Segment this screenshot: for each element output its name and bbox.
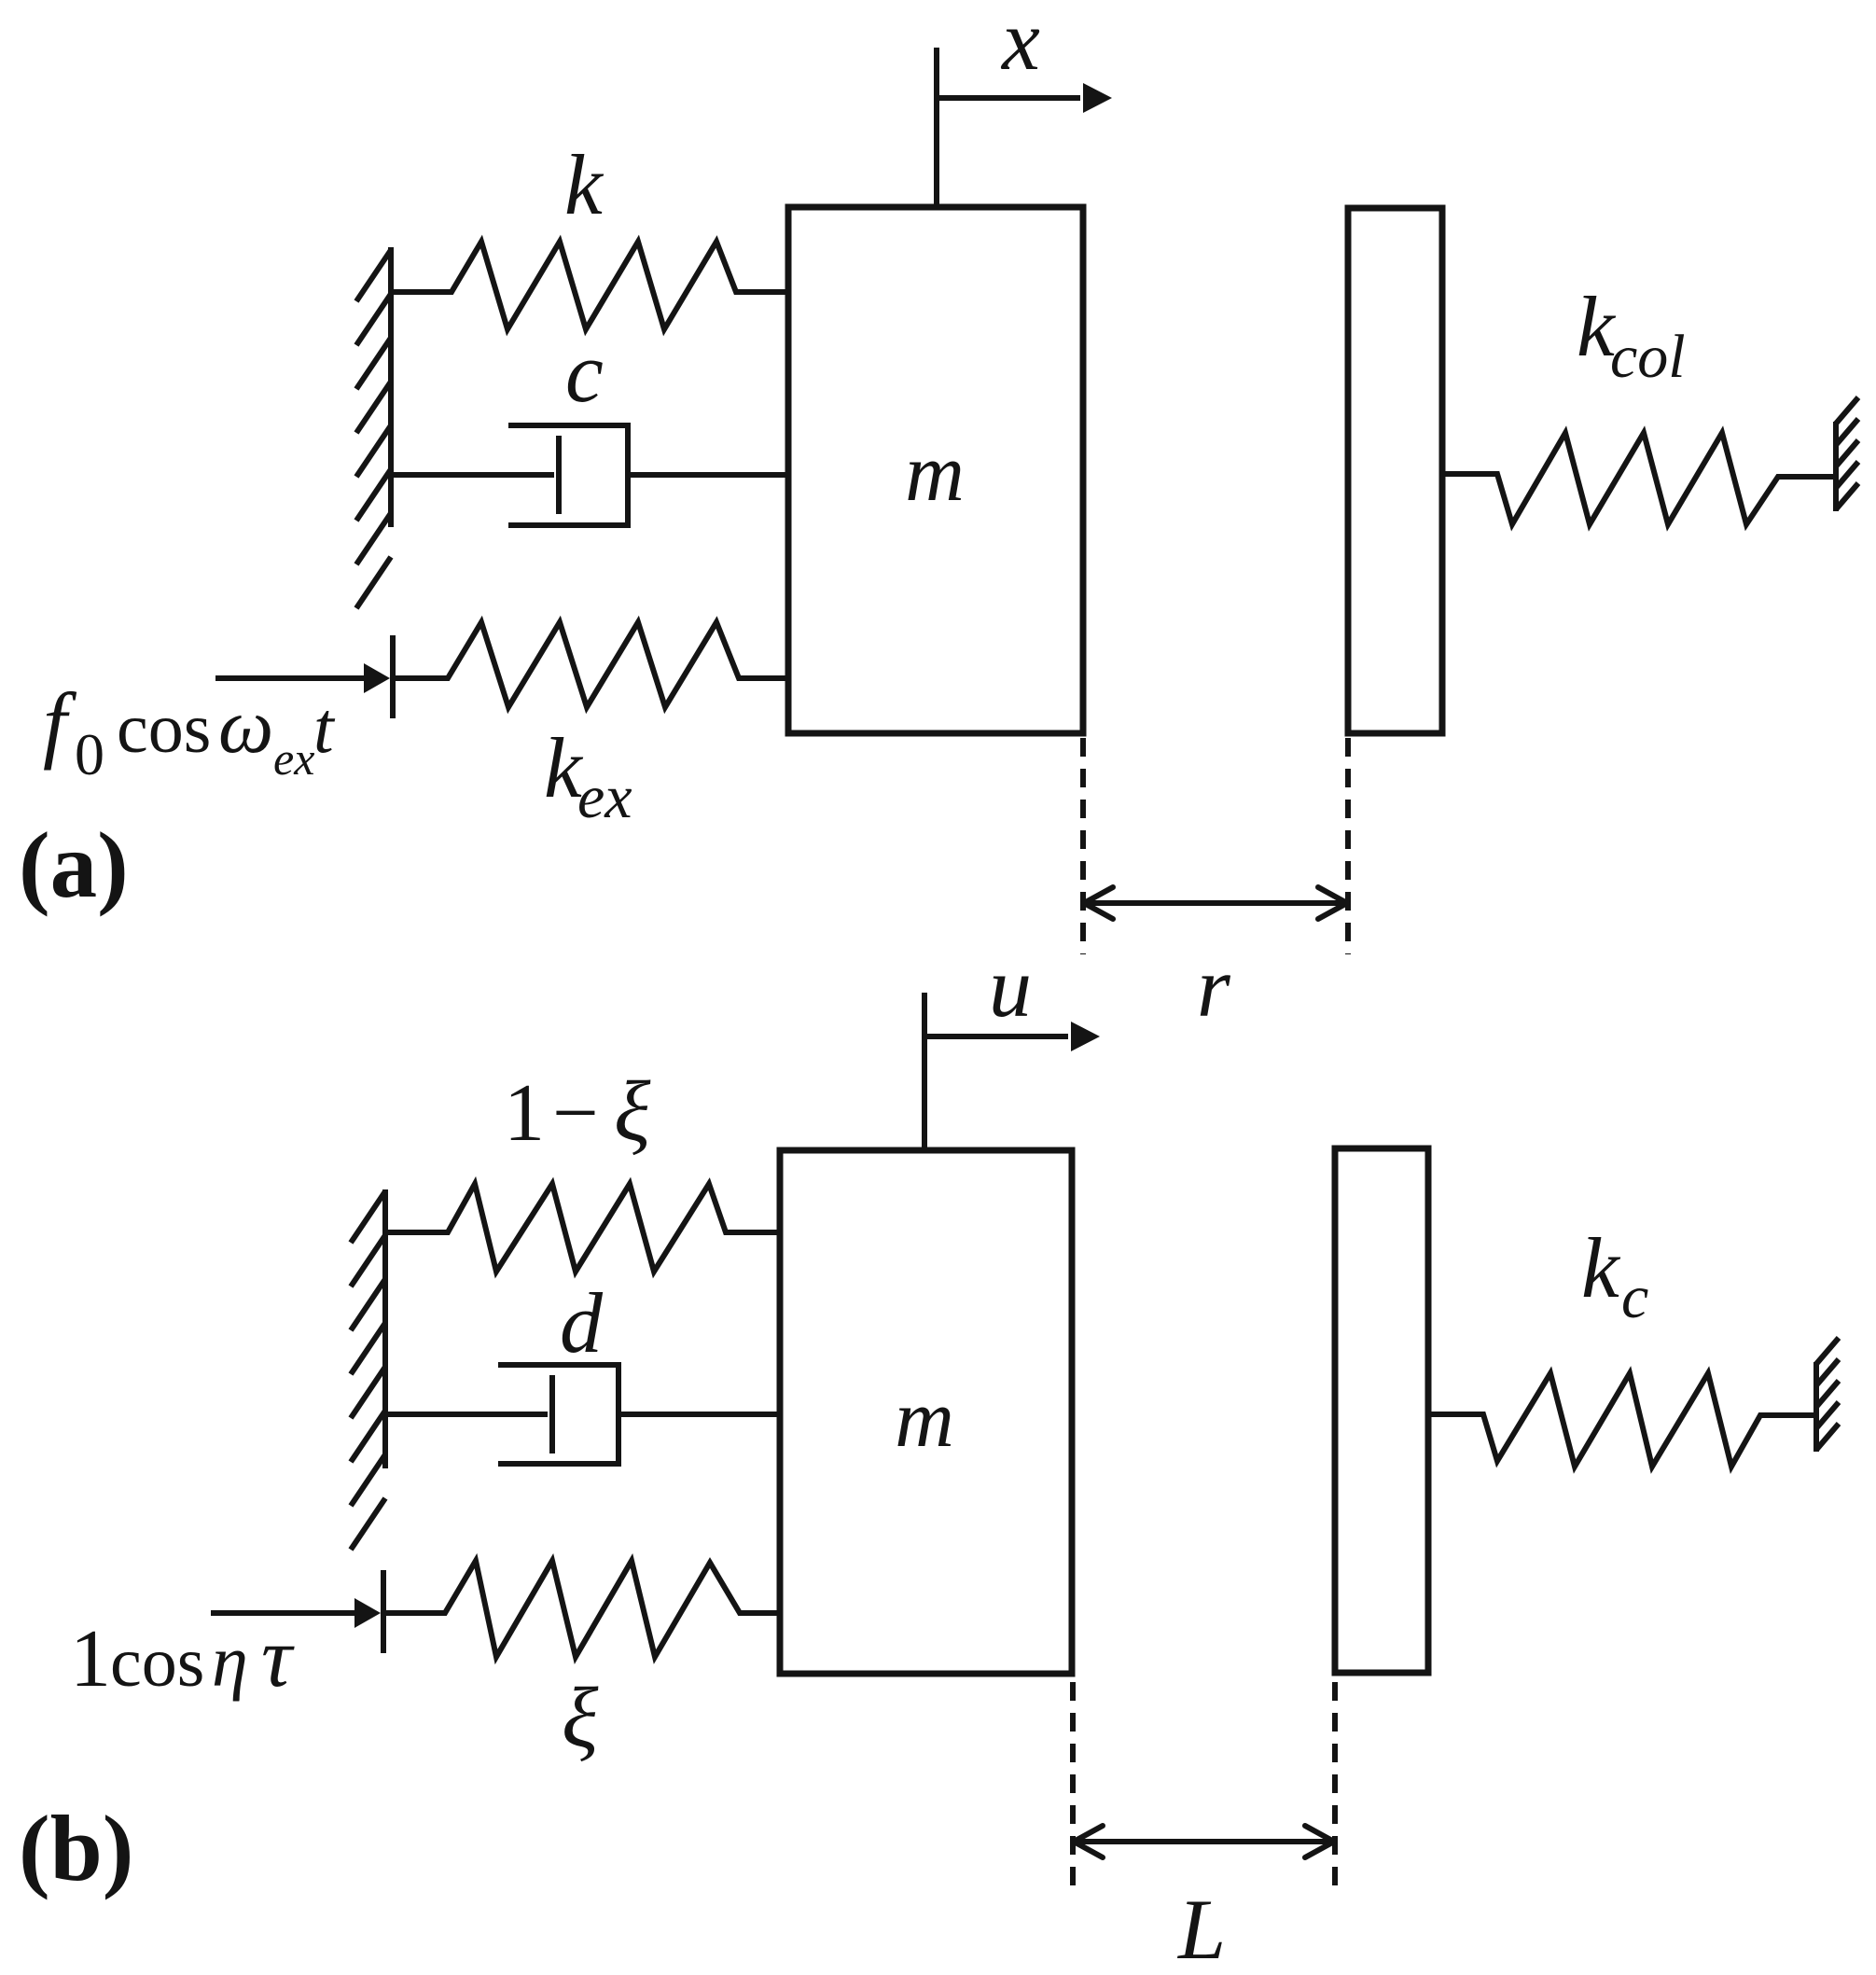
dashed line mass edge (a) [1080,738,1086,954]
coordinate axis x (a) [937,48,1112,207]
svg-text:1: 1 [504,1068,545,1159]
label f0 cos w_ex t [43,675,336,787]
svg-text:τ: τ [261,1609,295,1704]
svg-text:cos: cos [110,1623,204,1702]
svg-text:t: t [313,687,336,768]
spring k_col [1442,433,1836,524]
svg-text:ξ: ξ [562,1670,599,1765]
svg-text:d: d [560,1275,604,1370]
spring k_c [1428,1373,1816,1467]
stopper bar (b) [1335,1148,1428,1673]
damper c (a) [391,425,788,525]
svg-text:c: c [1621,1263,1648,1331]
svg-text:u: u [989,939,1032,1035]
label 1-xi [504,1064,651,1159]
svg-text:η: η [212,1620,248,1702]
svg-text:L: L [1176,1882,1226,1975]
label 1cos eta tau [70,1609,295,1704]
spring k_ex [393,622,788,707]
svg-text:ω: ω [218,683,273,770]
svg-text:x: x [1000,0,1040,88]
svg-text:(a): (a) [19,813,129,917]
svg-text:cos: cos [117,689,211,768]
dashed line mass edge (b) [1070,1682,1076,1890]
svg-text:k: k [564,137,604,232]
svg-text:ex: ex [577,763,632,831]
svg-text:ξ: ξ [614,1064,651,1159]
gap arrow r [1084,887,1347,919]
spring xi [383,1561,780,1657]
svg-text:ex: ex [273,732,314,785]
spring 1-xi [385,1184,780,1272]
stopper bar (a) [1348,208,1442,733]
wall left (a) [356,247,391,608]
spring k [391,242,788,329]
wall left (b) [351,1189,385,1550]
svg-text:0: 0 [75,721,104,787]
wall right (b) [1816,1338,1839,1452]
svg-text:m: m [895,1374,954,1465]
force arrow f0 (a) [215,635,393,718]
label k_col [1577,279,1686,391]
mass m (b) [780,1150,1072,1674]
wall right (a) [1836,397,1858,511]
svg-text:r: r [1197,939,1231,1035]
damper d (b) [385,1365,780,1464]
svg-text:col: col [1610,323,1686,391]
coordinate axis u (b) [924,993,1100,1150]
label k_ex [544,720,632,831]
svg-text:k: k [1581,1220,1621,1315]
svg-text:m: m [905,428,965,519]
svg-text:c: c [565,325,604,420]
dashed line bar edge (b) [1332,1682,1338,1890]
mass m (a) [788,207,1083,733]
gap arrow L [1074,1826,1334,1857]
svg-text:(b): (b) [19,1796,133,1900]
svg-text:−: − [552,1068,599,1159]
dashed line bar edge (a) [1345,738,1351,954]
force arrow 1cos (b) [211,1570,383,1653]
svg-text:1: 1 [70,1614,111,1704]
label k_c [1581,1220,1648,1331]
